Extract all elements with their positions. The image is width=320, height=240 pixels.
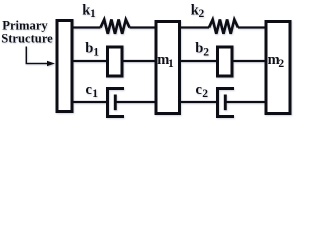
svg-text:1: 1 xyxy=(90,8,96,20)
spring k2 xyxy=(209,20,238,34)
wire wall to dashpot c1 xyxy=(72,101,108,103)
label: Primary Structure xyxy=(1,18,53,45)
wire damper b2 to mass m2 xyxy=(233,60,266,62)
spring k1 xyxy=(101,20,130,34)
svg-text:Structure: Structure xyxy=(1,31,53,45)
wire spring k2 to mass m2 xyxy=(238,26,266,28)
dashpot c1 piston xyxy=(114,95,117,111)
svg-text:b: b xyxy=(85,41,93,57)
dashpot c1 rod to mass m1 xyxy=(115,101,156,103)
wire mass m1 to spring k2 xyxy=(181,26,210,28)
label b2 xyxy=(195,41,209,59)
dashpot c2 rod to mass m2 xyxy=(225,101,266,103)
svg-text:2: 2 xyxy=(203,47,209,59)
svg-text:1: 1 xyxy=(92,88,98,100)
wire damper b1 to mass m1 xyxy=(123,60,156,62)
damper b1 (rectangle element) xyxy=(108,47,123,76)
svg-text:2: 2 xyxy=(199,8,205,20)
dashpot c1 cylinder xyxy=(108,89,125,117)
mass m2 xyxy=(266,22,290,114)
svg-text:b: b xyxy=(195,41,203,57)
svg-text:Primary: Primary xyxy=(2,18,48,32)
dashpot c2 piston xyxy=(224,95,227,111)
wire wall to damper b1 xyxy=(72,60,107,62)
label m2 xyxy=(268,52,285,70)
svg-text:1: 1 xyxy=(168,58,174,70)
primary structure wall xyxy=(57,21,72,112)
wire mass m1 to dashpot c2 xyxy=(181,101,218,103)
dashpot c2 cylinder xyxy=(218,89,235,117)
arrow from label to primary structure wall xyxy=(26,47,55,67)
wire mass m1 to damper b2 xyxy=(181,60,218,62)
label c2 xyxy=(196,82,209,100)
label k1 xyxy=(82,2,96,20)
svg-text:2: 2 xyxy=(202,88,208,100)
wire wall to spring k1 xyxy=(72,26,101,28)
mass m1 xyxy=(156,22,180,114)
label k2 xyxy=(191,2,205,20)
label m1 xyxy=(157,52,174,70)
svg-text:1: 1 xyxy=(93,47,99,59)
label c1 xyxy=(86,82,99,100)
damper b2 (rectangle element) xyxy=(218,47,233,76)
label b1 xyxy=(85,41,99,59)
svg-text:2: 2 xyxy=(278,58,284,70)
wire spring k1 to mass m1 xyxy=(130,26,157,28)
